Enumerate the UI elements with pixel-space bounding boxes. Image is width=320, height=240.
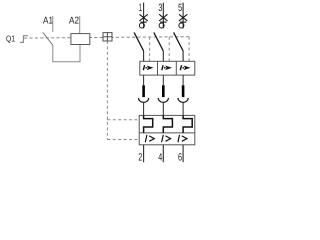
wire: dashed branch pole 1 trip to I> box [149,37,151,61]
contactor main contact pole 1 (bar) [142,85,145,97]
contactor main contact pole 1 (arc) [139,98,149,103]
manual operator symbol of Q1 [20,36,28,43]
wire: pole 2 top lead [162,3,164,29]
I> symbol pole 3 (overload) [178,135,187,142]
contact arm pole 3 [174,32,184,51]
wire: pole 2 lead below I> box [162,75,164,85]
thermal element pole 3 [183,115,192,132]
overload relay box [139,115,195,144]
mechanical latch / trip box [103,33,112,41]
magnetic overcurrent trip box row [140,61,195,75]
latch tick pole 1 [140,21,146,23]
svg-text:A1: A1 [43,15,53,26]
contactor main contact pole 3 (arc) [178,98,188,103]
thermal element pole 2 [163,115,172,132]
svg-text:6: 6 [178,151,182,163]
wire: pole 3 lead below I> box [182,75,184,85]
latch tick pole 3 [180,21,186,23]
wire: pole 1 lead below I> box [143,75,145,85]
breaker function X pole 3 [179,14,187,21]
wire: contact bottom lead, bottom U wire up to coil [53,45,80,62]
wire: pole 1 lead to I> box [143,51,145,61]
svg-text:1: 1 [139,2,142,14]
latch circle pole 2 [159,23,164,28]
contactor main contact pole 2 (bar) [162,85,165,97]
contact: Q1 auxiliary contact moving arm [43,32,53,45]
latch circle pole 3 [179,23,184,28]
svg-text:Q1: Q1 [6,34,15,44]
contact arm pole 1 [134,32,144,51]
breaker function X pole 2 [159,14,167,21]
wire: pole 1 bottom terminal lead [143,145,145,162]
contact arm pole 2 [154,32,164,51]
svg-text:3: 3 [158,2,162,14]
I> symbol pole 2 (magnetic trip) [162,65,172,70]
latch tick pole 2 [160,21,166,23]
svg-text:2: 2 [138,151,142,163]
I> symbol pole 1 (magnetic trip) [143,65,153,70]
breaker function X pole 1 [139,14,147,21]
wire: pole 1 top lead [143,3,145,29]
wire: dashed stub to magnetic trip compartment [107,139,139,141]
wire: pole 3 lead to overload box [182,102,184,116]
I> symbol pole 1 (overload) [145,135,154,142]
thermal element pole 1 [144,115,153,132]
wire: pole 3 lead to I> box [182,51,184,61]
wire: pole 2 lead to overload box [162,102,164,116]
wire: pole 2 lead to I> box [162,51,164,61]
wire: dashed branch pole 3 trip to I> box [188,37,190,62]
wire: pole 3 bottom terminal lead [182,145,184,162]
wire: pole 2 bottom terminal lead [162,145,164,162]
wire: dashed branch pole 2 trip to I> box [168,37,170,62]
latch circle pole 1 [139,23,144,28]
I> symbol pole 3 (magnetic trip) [180,65,190,70]
wire: dashed stub to thermal trip compartment [107,119,139,121]
wire: A2 lead [79,16,81,34]
wire: pole 1 lead to overload box [143,102,145,116]
wire: vertical dashed trip linkage below latch box [106,41,108,140]
svg-text:4: 4 [158,151,162,163]
contactor main contact pole 3 (bar) [182,85,185,97]
svg-text:5: 5 [178,2,182,14]
wire: horizontal dashed mechanical linkage from Q1 operator to pole arms [24,37,191,38]
contactor main contact pole 2 (arc) [158,98,168,103]
I> symbol pole 2 (overload) [162,135,171,142]
wire: pole 3 top lead [182,3,184,29]
svg-text:A2: A2 [69,15,79,26]
wire: A1 lead [52,16,54,32]
coil of contactor (A1-A2) [71,34,90,45]
